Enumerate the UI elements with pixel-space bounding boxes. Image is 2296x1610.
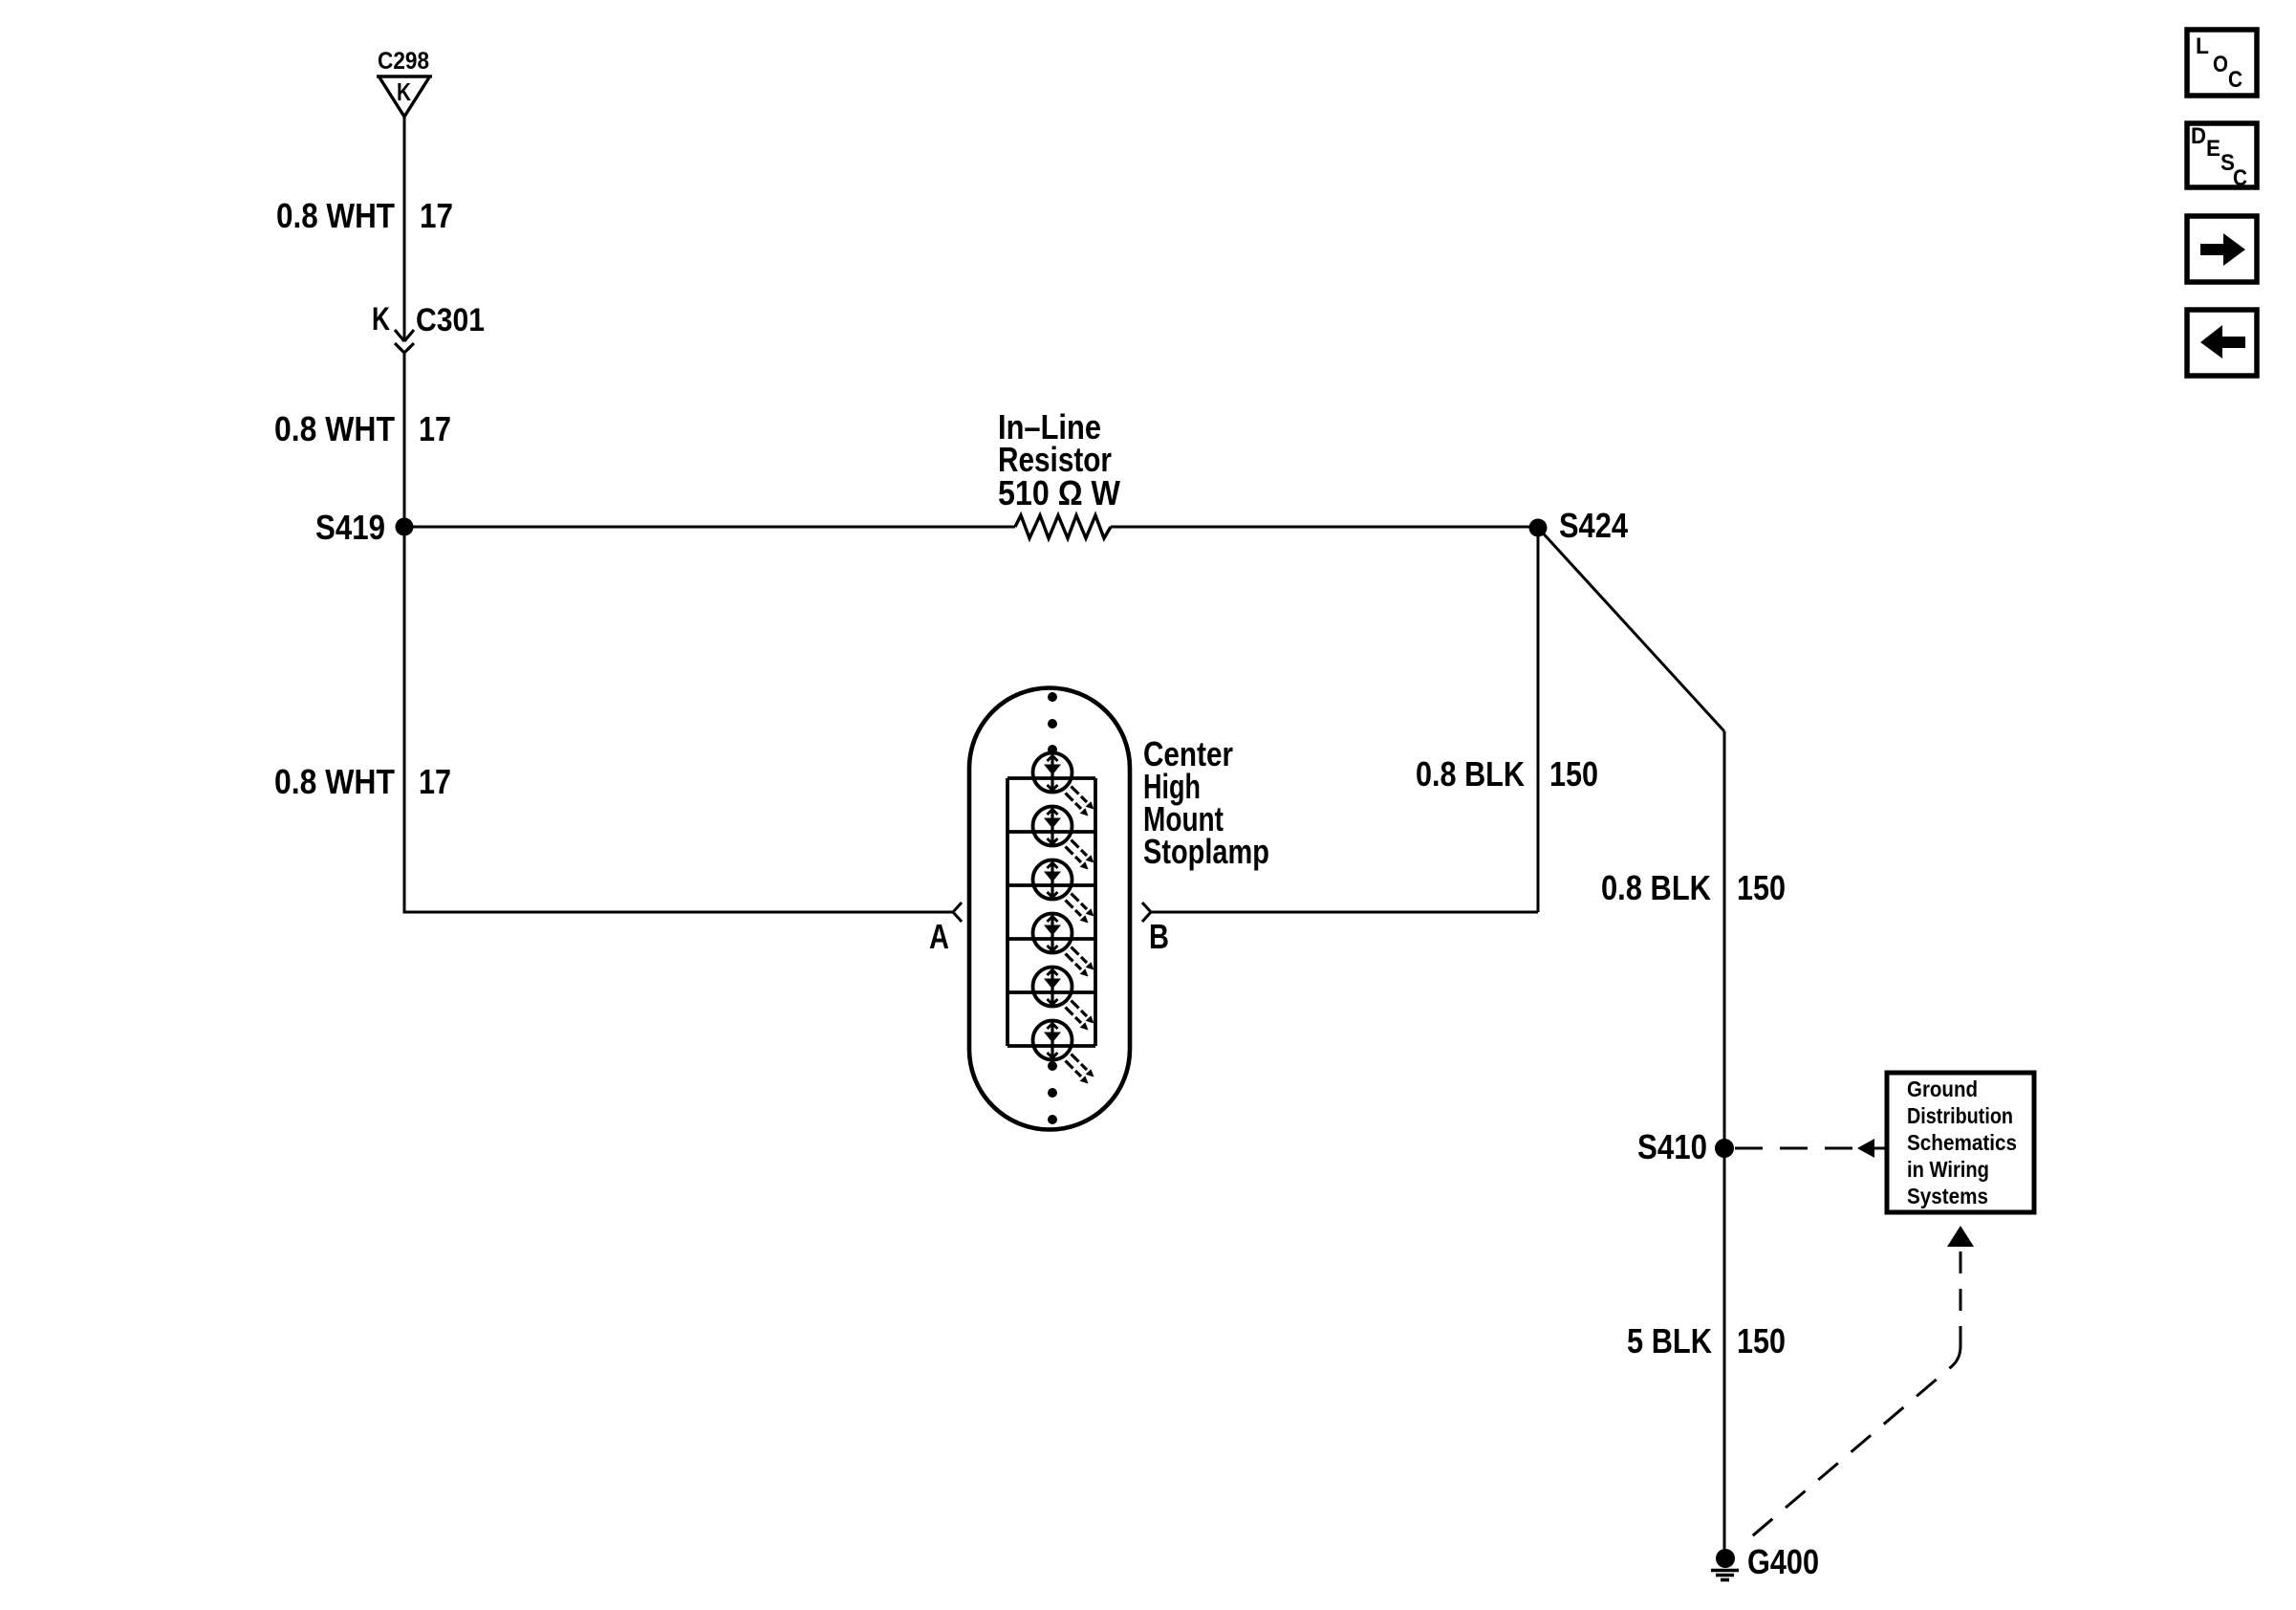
svg-text:0.8 WHT: 0.8 WHT — [274, 409, 395, 448]
svg-text:Distribution: Distribution — [1907, 1103, 2013, 1128]
svg-text:5 BLK: 5 BLK — [1627, 1321, 1712, 1360]
svg-text:C298: C298 — [378, 48, 429, 75]
svg-text:L: L — [2196, 33, 2209, 59]
svg-text:Schematics: Schematics — [1907, 1130, 2017, 1155]
wire 0.8 WHT from S419 down and right to stoplamp pin A — [404, 527, 953, 912]
LED 5 of stoplamp — [1033, 968, 1094, 1031]
connector C298 triangle symbol — [377, 76, 432, 117]
LED 6 of stoplamp — [1033, 1021, 1094, 1084]
svg-text:0.8 BLK: 0.8 BLK — [1601, 868, 1711, 907]
resistor zigzag symbol — [1015, 515, 1111, 538]
next page button (right arrow) — [2187, 216, 2257, 282]
svg-text:in Wiring: in Wiring — [1907, 1157, 1989, 1182]
wire 0.8 WHT circuit 17 from C301 to S419 — [403, 353, 406, 528]
LED 1 of stoplamp — [1033, 753, 1094, 816]
ground G400 symbol — [1716, 1549, 1735, 1568]
svg-text:150: 150 — [1737, 1321, 1786, 1360]
svg-text:S410: S410 — [1637, 1127, 1707, 1166]
stoplamp pin B terminal chevron — [1142, 903, 1151, 922]
wire from resistor to S424 — [1111, 526, 1538, 529]
wire diagonal from S424 toward S410 branch — [1538, 528, 1724, 731]
svg-text:B: B — [1149, 917, 1169, 956]
DESC button — [2187, 123, 2257, 187]
LED 4 of stoplamp — [1033, 914, 1094, 977]
LED 2 of stoplamp — [1033, 807, 1094, 870]
svg-text:O: O — [2213, 52, 2228, 77]
svg-text:Ground: Ground — [1907, 1077, 1978, 1101]
svg-text:510 Ω W: 510 Ω W — [998, 473, 1120, 512]
svg-text:K: K — [397, 77, 411, 106]
wire 5 BLK circuit 150 from S410 to G400 — [1723, 1148, 1726, 1551]
svg-text:17: 17 — [419, 762, 451, 801]
svg-text:E: E — [2206, 136, 2220, 162]
svg-text:C301: C301 — [416, 302, 485, 338]
splice S424 node dot — [1529, 519, 1548, 537]
wire 0.8 BLK circuit 150 from S424 to S410 — [1723, 731, 1726, 1148]
connector C301 arrow symbol — [395, 330, 414, 353]
svg-text:0.8 WHT: 0.8 WHT — [274, 762, 395, 801]
dashed diagonal line to G400 — [1741, 1346, 1960, 1546]
svg-text:S424: S424 — [1559, 506, 1628, 545]
dashed reference line from S410 to ground distribution box — [1735, 1147, 1857, 1150]
reference arrowhead pointing left — [1857, 1139, 1874, 1158]
svg-text:0.8 BLK: 0.8 BLK — [1416, 754, 1525, 794]
LED ladder frame — [1007, 778, 1095, 1046]
LOC button — [2187, 30, 2257, 96]
svg-text:150: 150 — [1737, 868, 1786, 907]
svg-text:G400: G400 — [1747, 1542, 1819, 1581]
splice S419 node dot — [396, 518, 414, 536]
svg-text:17: 17 — [420, 196, 453, 235]
Center High Mount Stoplamp outline (capsule) — [969, 688, 1130, 1130]
svg-text:C: C — [2228, 67, 2242, 93]
previous page button (left arrow) — [2187, 310, 2257, 376]
LED 3 of stoplamp — [1033, 860, 1094, 924]
stoplamp pin A terminal chevron — [953, 903, 962, 922]
wire from stoplamp pin B to S424 branch — [1151, 911, 1538, 914]
continuation dots above LEDs — [1048, 692, 1057, 702]
ground distribution schematics reference box — [1887, 1073, 2034, 1212]
svg-text:S419: S419 — [315, 508, 385, 547]
continuation dots below LEDs — [1048, 1061, 1057, 1071]
svg-text:Systems: Systems — [1907, 1184, 1988, 1208]
svg-text:17: 17 — [419, 409, 451, 448]
svg-text:C: C — [2233, 165, 2247, 191]
svg-text:A: A — [929, 917, 949, 956]
svg-text:0.8 WHT: 0.8 WHT — [276, 196, 395, 235]
svg-text:D: D — [2191, 123, 2206, 149]
wire 0.8 WHT circuit 17 from C298 to C301 — [403, 117, 406, 340]
svg-text:K: K — [372, 301, 390, 337]
wire 0.8 BLK circuit 150 from S424 down to stoplamp pin B — [1537, 528, 1540, 912]
svg-text:150: 150 — [1549, 754, 1598, 794]
svg-text:Stoplamp: Stoplamp — [1143, 832, 1269, 871]
wire from S419 to in-line resistor — [404, 526, 1015, 529]
arrowhead pointing up into box — [1947, 1226, 1974, 1247]
dashed vertical line below box — [1960, 1251, 1962, 1346]
splice S410 node dot — [1715, 1139, 1734, 1158]
